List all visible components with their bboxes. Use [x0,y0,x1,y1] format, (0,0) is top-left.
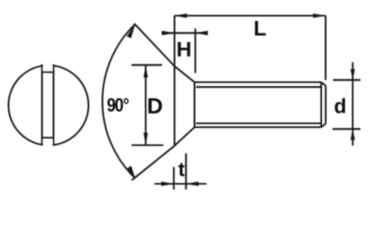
t right extension line [185,153,187,189]
chamfer top diagonal [321,82,326,86]
L right arrowhead [313,14,326,18]
head bottom cone edge [175,127,195,146]
head top cone edge [175,66,195,82]
circle gap at slot bottom [43,140,52,151]
d bottom extension line [333,128,361,130]
L left extension line [174,16,176,66]
dimension D line [145,65,147,145]
D bottom extension line [132,144,164,146]
angle top extension line [134,24,174,67]
slot bottom cap [42,137,54,139]
label D [148,98,161,113]
shank bottom edge [195,126,322,128]
t right arrowhead [186,182,199,186]
chamfer bottom diagonal [321,124,326,128]
dimension H line [162,32,208,34]
H right arrowhead [195,31,208,35]
angle dimension arc [102,24,135,178]
angle arc top arrowhead [127,24,136,38]
t left arrowhead [161,182,174,186]
D top arrowhead [144,65,148,78]
label 90° [107,98,128,111]
label L [255,21,266,35]
thread inner line bottom [196,122,321,124]
angle bottom extension line [132,146,175,180]
D top extension line [132,64,163,66]
D bottom arrowhead [144,133,148,146]
thread inner line top [196,86,321,88]
dimension t line [155,183,207,185]
angle arc bottom arrowhead [127,166,135,178]
chamfer line [320,82,322,127]
slot right edge [53,64,55,145]
head shank junction line [194,82,196,127]
shank top edge [195,81,322,83]
d top arrowhead [351,69,355,80]
circle gap at slot top [43,61,52,71]
label H [178,42,190,56]
H left arrowhead [162,31,175,35]
label t [178,163,184,176]
slot top cap [42,71,54,73]
front view head circle [9,65,89,145]
dimension d line [352,62,354,145]
t left extension line [173,167,175,190]
dimension L line [175,15,326,17]
L left arrowhead [175,14,188,18]
L right extension line [325,16,327,80]
slot left edge [41,64,43,144]
H right extension line [194,29,196,74]
shank end face [325,86,327,124]
d top extension line [333,79,361,81]
label d [335,98,345,113]
d bottom arrowhead [351,129,355,140]
head left face [174,66,176,146]
